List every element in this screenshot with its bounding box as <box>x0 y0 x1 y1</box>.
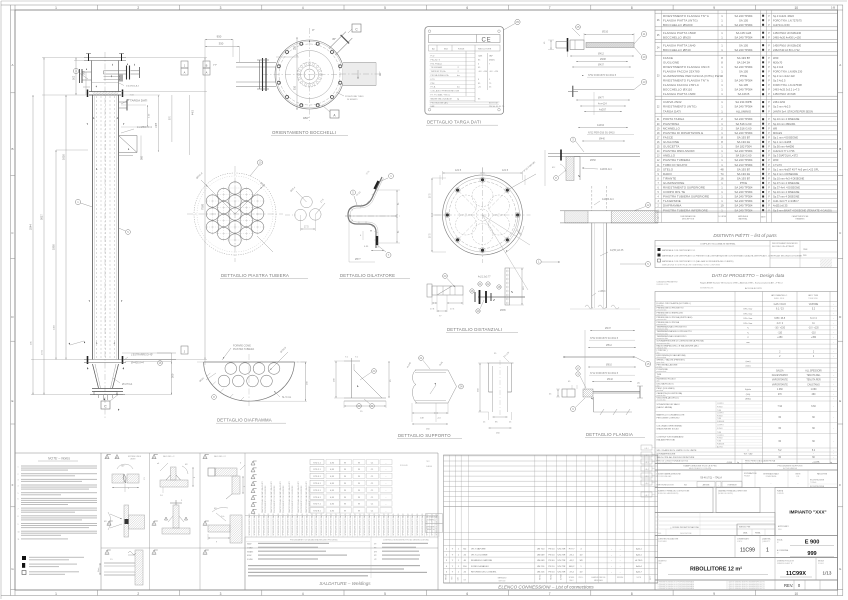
svg-text:SPESSORE GIUNTO SALD: SPESSORE GIUNTO SALD <box>310 513 313 536</box>
svg-text:+450: +450 <box>777 337 783 339</box>
svg-text:INGRESSO FLUIDO: INGRESSO FLUIDO <box>657 379 677 381</box>
svg-text:PN 10: PN 10 <box>548 554 555 556</box>
svg-text:OGGETTO: OGGETTO <box>658 561 668 563</box>
svg-text:PRESSIONE DI ESERCIZIO: PRESSIONE DI ESERCIZIO <box>657 312 684 314</box>
svg-text:4xØ10: 4xØ10 <box>597 124 605 127</box>
support dim 360 <box>140 136 142 161</box>
svg-text:TIRANTE: TIRANTE <box>663 176 676 180</box>
svg-text:1B0°: 1B0° <box>303 116 309 120</box>
svg-text:PIASTRINA: PIASTRINA <box>663 122 679 126</box>
svg-text:Kg/dm: Kg/dm <box>745 389 751 391</box>
svg-text:SA 193 B7: SA 193 B7 <box>737 136 751 140</box>
svg-text:SA 105: SA 105 <box>739 83 748 87</box>
svg-text:UN 216: UN 216 <box>537 572 545 574</box>
svg-text:TARGA DATI: TARGA DATI <box>130 99 148 103</box>
svg-text:BOTTOM: BOTTOM <box>489 102 498 104</box>
svg-text:SA 105: SA 105 <box>739 43 748 47</box>
svg-text:UN 72R: UN 72R <box>558 549 566 551</box>
section A flange left <box>570 40 584 50</box>
svg-text:NOTE: NOTE <box>637 577 641 579</box>
svg-text:CONTROLLI NON DISTRUTTIVI (N.: CONTROLLI NON DISTRUTTIVI (N. DESIGN CUS… <box>383 540 429 542</box>
svg-text:FAB: FAB <box>431 105 435 108</box>
svg-text:MT:: MT: <box>374 551 378 553</box>
svg-text:UN 669: UN 669 <box>537 554 545 556</box>
svg-text:950: 950 <box>217 35 222 39</box>
svg-text:6: 6 <box>466 592 468 596</box>
svg-text:4-B-1: 4-B-1 <box>644 448 648 450</box>
svg-text:1: 1 <box>55 592 57 596</box>
svg-text:N°12 FORI Ø76 SU Ø41.5: N°12 FORI Ø76 SU Ø41.5 <box>590 372 619 375</box>
svg-text:4x21.3x3.77 L=1383.7: 4x21.3x3.77 L=1383.7 <box>773 199 799 203</box>
svg-text:PN 10: PN 10 <box>548 549 555 551</box>
svg-text:4xØ36.4x4: 4xØ36.4x4 <box>600 168 612 171</box>
svg-text:PIANTA: PIANTA <box>777 490 784 493</box>
svg-text:kg: kg <box>457 98 459 100</box>
weld cell3 detail2 <box>203 521 207 525</box>
svg-text:COLONIA DI VEROSSIMILI: COLONIA DI VEROSSIMILI <box>657 425 683 428</box>
svg-text:UN 72R: UN 72R <box>558 566 566 568</box>
svg-text:ALTRA CAMERA: ALTRA CAMERA <box>783 467 798 470</box>
svg-text:5: 5 <box>253 491 254 493</box>
svg-text:ESW:: ESW: <box>247 555 252 557</box>
svg-text:IMPIANTO "XXX": IMPIANTO "XXX" <box>789 510 826 515</box>
svg-text:2544: 2544 <box>29 224 33 230</box>
svg-text:(NOME DELL'ENTE): (NOME DELL'ENTE) <box>718 493 733 495</box>
svg-text:Sp.3 4x222. Ø222: Sp.3 4x222. Ø222 <box>773 14 794 18</box>
right dim line 7585 <box>204 58 206 360</box>
svg-text:SPESSORE GIUNTO SALD: SPESSORE GIUNTO SALD <box>378 513 381 536</box>
svg-text:2462 PxR.L6.50 L=712: 2462 PxR.L6.50 L=712 <box>773 48 800 52</box>
commessa row <box>655 536 838 558</box>
svg-text:A-B-1: A-B-1 <box>636 548 642 551</box>
svg-text:5: 5 <box>384 592 386 596</box>
svg-text:PIASTRA TUBIERA INFERIORE: PIASTRA TUBIERA INFERIORE <box>663 208 708 212</box>
svg-text:FINANZIARIA: FINANZIARIA <box>766 475 777 478</box>
svg-text:Sp.10 mm 4 DISEGNE: Sp.10 mm 4 DISEGNE <box>773 190 800 194</box>
svg-text:6.1 / 23: 6.1 / 23 <box>776 309 784 311</box>
svg-text:GUARNIZIONE PER FASCIA (INTG): GUARNIZIONE PER FASCIA (INTG) FW-R <box>663 74 723 78</box>
svg-text:5: 5 <box>18 493 19 495</box>
vessel top left nozzle <box>82 71 92 73</box>
supporto right view <box>487 362 514 364</box>
svg-text:PORTA TARGA: PORTA TARGA <box>663 117 684 121</box>
svg-text:1: 1 <box>18 466 19 468</box>
svg-text:PROCEDIMENTO DI GIUNZIONE: PROCEDIMENTO DI GIUNZIONE <box>265 485 267 513</box>
left dim lines <box>42 57 84 59</box>
svg-text:TOT / LAT: TOT / LAT <box>743 453 753 456</box>
svg-text:NOTE – Notes: NOTE – Notes <box>48 457 70 461</box>
svg-text:CE: CE <box>482 37 492 43</box>
svg-text:NUMERO E FIRMA DEL COSTRUTTORE: NUMERO E FIRMA DEL COSTRUTTORE <box>658 490 691 493</box>
svg-text:LIMITE: LIMITE <box>130 459 136 461</box>
svg-text:MASSE VALLI/QUALIM: MASSE VALLI/QUALIM <box>431 97 452 100</box>
svg-text:A-B-4: A-B-4 <box>636 565 642 568</box>
svg-text:5: 5 <box>384 6 386 10</box>
svg-text:B: B <box>206 64 208 68</box>
svg-text:P77,7: P77,7 <box>569 549 576 551</box>
svg-text:PER LIMITE CORROSO: PER LIMITE CORROSO <box>657 417 680 419</box>
supporto middle refs <box>419 356 424 361</box>
svg-text:Ø385: Ø385 <box>500 310 506 312</box>
diaframma holes <box>225 363 237 375</box>
passo dims <box>296 191 307 202</box>
svg-text:Ø437: Ø437 <box>605 327 612 330</box>
commessa number box <box>734 536 736 558</box>
svg-text:SALDATURE – Weldings: SALDATURE – Weldings <box>319 581 371 586</box>
svg-text:DISEGNO FOGLIO N°: DISEGNO FOGLIO N° <box>777 561 794 563</box>
svg-text:UN 72R: UN 72R <box>558 560 566 562</box>
svg-text:PN 10: PN 10 <box>548 566 555 568</box>
svg-text:Sp.37 mm 4 DISEGNE: Sp.37 mm 4 DISEGNE <box>773 195 800 199</box>
dim 870 <box>171 95 173 142</box>
svg-text:mm: mm <box>746 342 750 344</box>
svg-text:SL.5 mm: SL.5 mm <box>282 397 291 399</box>
svg-text:1.6: 1.6 <box>160 495 163 497</box>
svg-text:bar: bar <box>457 87 460 89</box>
svg-text:PTFE: PTFE <box>740 74 747 78</box>
svg-text:FLD: FLD <box>431 56 435 58</box>
svg-text:STD 7.1: STD 7.1 <box>313 504 321 506</box>
orientamento left nozzle flange <box>262 58 264 91</box>
svg-text:2465 4x20.4x430 L=150: 2465 4x20.4x430 L=150 <box>773 35 801 39</box>
svg-text:SPESSORE GIUNTO SALD: SPESSORE GIUNTO SALD <box>296 513 299 536</box>
svg-text:W20: W20 <box>773 56 779 60</box>
svg-text:A-B-7: A-B-7 <box>636 571 642 574</box>
svg-text:GUSCETTA: GUSCETTA <box>663 145 679 149</box>
svg-text:2: 2 <box>137 6 139 10</box>
svg-text:+450: +450 <box>811 337 817 339</box>
svg-text:(MAX): (MAX) <box>489 58 495 61</box>
parts table single rows <box>655 116 838 118</box>
svg-text:C1: C1 <box>204 457 206 459</box>
section E break squiggles <box>585 305 593 309</box>
svg-text:LATO MANTELLO: LATO MANTELLO <box>771 294 788 297</box>
flangia section <box>562 389 575 397</box>
svg-text:1.5: 1.5 <box>110 559 113 561</box>
svg-text:A: A <box>11 63 13 67</box>
svg-text:1616: 1616 <box>62 154 66 160</box>
flangia bold arrow line <box>563 356 635 358</box>
svg-text:3: 3 <box>220 592 222 596</box>
svg-text:45°: 45° <box>214 508 217 510</box>
piastra diag leaders <box>201 180 235 214</box>
svg-text:448,2: 448,2 <box>569 566 575 568</box>
svg-text:SA 194 2H: SA 194 2H <box>737 140 750 144</box>
svg-text:ALL SPESSORI: ALL SPESSORI <box>805 369 822 372</box>
svg-text:4x21.3x3.77: 4x21.3x3.77 <box>478 277 491 279</box>
svg-text:FONDO A BASSO: FONDO A BASSO <box>471 565 489 568</box>
svg-text:1450 PN16 UN 628: 1450 PN16 UN 628 <box>773 92 796 96</box>
svg-text:CARPENTERIA 4 SALDATURA GIUNTI: CARPENTERIA 4 SALDATURA GIUNTI <box>279 481 282 513</box>
section D flange pair <box>548 153 640 155</box>
svg-text:D3: D3 <box>204 552 206 554</box>
svg-text:UN 72R: UN 72R <box>558 554 566 556</box>
svg-text:Sp.10 mm 280x301: Sp.10 mm 280x301 <box>773 122 796 126</box>
svg-text:6.85 / 46.5: 6.85 / 46.5 <box>774 318 786 320</box>
svg-text:PIASTRA TUBIERA SUPERIORE: PIASTRA TUBIERA SUPERIORE <box>663 195 709 199</box>
svg-text:DN 3xL FL SL TA: DN 3xL FL SL TA <box>489 105 505 108</box>
dilatatore centerline <box>345 215 400 217</box>
svg-text:ELENCO CONNESSIONI – List: ELENCO CONNESSIONI – List of connections <box>498 585 594 590</box>
svg-text:SPESSORE GIUNTO SALD: SPESSORE GIUNTO SALD <box>248 513 251 536</box>
svg-text:ROUGHN: ROUGHN <box>400 465 408 467</box>
svg-text:SPESS.: SPESS. <box>569 577 575 579</box>
svg-text:UN 72R: UN 72R <box>558 572 566 574</box>
svg-text:STD 2.1: STD 2.1 <box>313 469 321 471</box>
dilatatore bottom dim <box>348 216 350 262</box>
svg-text:F: F <box>839 483 841 487</box>
svg-text:BOCCHELLO ØN20: BOCCHELLO ØN20 <box>663 35 691 39</box>
svg-text:STELO: STELO <box>663 167 674 171</box>
section C dims <box>578 127 628 129</box>
svg-text:E 900: E 900 <box>805 540 820 546</box>
svg-text:Ø577: Ø577 <box>355 259 361 261</box>
svg-text:CARPENTERIA 4 SALDATURA GIUNTI: CARPENTERIA 4 SALDATURA GIUNTI <box>305 481 308 513</box>
svg-text:19: 19 <box>721 204 724 208</box>
svg-text:SPESSORE GIUNTO SALD: SPESSORE GIUNTO SALD <box>354 513 357 536</box>
svg-text:RIVESTIMENTO FLANGIA TN"'A: RIVESTIMENTO FLANGIA TN"'A <box>663 79 709 83</box>
tube bundle shell <box>92 95 94 360</box>
svg-text:CARPENTERIA 4 SALDATURA GIUNTI: CARPENTERIA 4 SALDATURA GIUNTI <box>288 481 291 513</box>
svg-text:FCAW:: FCAW: <box>247 558 253 561</box>
svg-text:GTAW:: GTAW: <box>247 546 253 549</box>
flangia lower stem <box>593 397 595 412</box>
svg-text:ITALIANI PER TUBI: ITALIANI PER TUBI <box>657 438 676 441</box>
svg-text:Ø442: Ø442 <box>607 378 614 381</box>
design data header <box>655 301 838 303</box>
svg-text:bar: bar <box>457 75 460 77</box>
svg-text:10: 10 <box>795 6 799 10</box>
svg-text:4xØ37: 4xØ37 <box>599 108 607 111</box>
svg-text:A1: A1 <box>106 456 108 459</box>
dilatatore vertical dim right <box>376 189 400 191</box>
svg-text:QUESTO DISEGNO NON PUO ESSERE: QUESTO DISEGNO NON PUO ESSERE RIPRODOTTO <box>729 584 766 586</box>
svg-text:1.060: 1.060 <box>777 389 783 391</box>
dim 350 vertical <box>147 105 149 127</box>
svg-text:SMAW:: SMAW: <box>247 550 254 553</box>
svg-text:1/13: 1/13 <box>823 571 832 576</box>
svg-text:RIVESTIMENTO FLANGIA CNCX: RIVESTIMENTO FLANGIA CNCX <box>663 65 710 69</box>
svg-text:SPESSORE GIUNTO SALD: SPESSORE GIUNTO SALD <box>320 513 323 536</box>
svg-text:SP.LI CLASSI SU N. LIMITE /: SP.LI CLASSI SU N. LIMITE / DI N. LIMITE <box>657 449 698 452</box>
svg-text:FLANGIA PIATTA 1N40: FLANGIA PIATTA 1N40 <box>663 43 696 47</box>
svg-text:GAS: GAS <box>478 55 483 58</box>
tubes dashed <box>96 96 98 359</box>
svg-text:PROCEDIMENTO DI GIUNZIONE: PROCEDIMENTO DI GIUNZIONE <box>309 485 311 513</box>
svg-text:FINALE: FINALE <box>744 475 751 478</box>
svg-text:48: 48 <box>721 167 724 171</box>
svg-text:7.94: 7.94 <box>778 406 783 408</box>
svg-text:C2: C2 <box>204 523 206 525</box>
svg-text:RIVESTIMENTO (INTG): RIVESTIMENTO (INTG) <box>663 105 697 109</box>
svg-text:FORO TN'A. LN 7275/75: FORO TN'A. LN 7275/75 <box>773 18 802 22</box>
svg-text:4m=124: 4m=124 <box>598 103 607 106</box>
paper edge <box>1 0 847 2</box>
svg-text:Sp.1 mm 4xd37 45°? 4x5 per L=: Sp.1 mm 4xd37 45°? 4x5 per L=22 GFL <box>773 167 820 171</box>
svg-text:PIASTRA DI RIPARTIZION.E: PIASTRA DI RIPARTIZION.E <box>663 131 703 135</box>
svg-text:KPa / bar: KPa / bar <box>744 308 753 311</box>
svg-text:DETTAGLIO DISTANZIALI: DETTAGLIO DISTANZIALI <box>447 327 502 332</box>
svg-text:FLANGIA FACCIA 25X780: FLANGIA FACCIA 25X780 <box>663 70 700 74</box>
materials bullets <box>658 248 661 251</box>
design data thin bottom rows <box>655 447 838 449</box>
svg-text:B: B <box>839 147 841 151</box>
svg-text:MATERIAL: MATERIAL <box>739 218 748 221</box>
svg-text:PRESSIONE DI PROGETTO: PRESSIONE DI PROGETTO <box>657 308 684 310</box>
svg-text:INTERNI: INTERNI <box>617 577 624 579</box>
svg-text:'09-46 (7/2) – ITALIA: '09-46 (7/2) – ITALIA <box>700 477 722 480</box>
svg-text:810: 810 <box>294 85 297 90</box>
mid dim 1485 <box>121 94 160 96</box>
dilatatore hatch ticks <box>376 185 379 187</box>
svg-text:MATERIALE CON CERTIFICATO 2.2: MATERIALE CON CERTIFICATO 2.2 (SAL-GAS S… <box>662 260 734 263</box>
detail boxes J/A left <box>181 61 188 68</box>
svg-text:AESSB: AESSB <box>703 484 710 487</box>
svg-text:11C99X: 11C99X <box>786 571 806 577</box>
zone ticks top/bottom <box>14 5 16 10</box>
emesso box <box>737 524 775 536</box>
svg-text:Ø358: Ø358 <box>590 160 596 162</box>
supporto gusset refs <box>372 369 377 374</box>
svg-text:W: W <box>344 476 346 478</box>
svg-text:-10 / +120: -10 / +120 <box>808 328 819 330</box>
svg-text:TEMPERATURA DI PROGETTO: TEMPERATURA DI PROGETTO <box>657 326 688 329</box>
svg-text:4: 4 <box>302 592 304 596</box>
svg-text:77°: 77° <box>213 63 217 67</box>
svg-text:VAPORITANTE: VAPORITANTE <box>772 379 788 382</box>
svg-text:SA 240 TP304: SA 240 TP304 <box>735 195 753 199</box>
distanziali ref 23 <box>443 274 448 279</box>
piastra tubes <box>229 208 241 220</box>
svg-text:PROCEDENTE SUPPORTI: PROCEDENTE SUPPORTI <box>778 465 803 467</box>
svg-text:COMMESSA N°: COMMESSA N° <box>737 538 749 541</box>
svg-text:PROCEDIMENTO DI GIUNZIONE: PROCEDIMENTO DI GIUNZIONE <box>283 485 285 513</box>
svg-text:W: W <box>358 476 360 478</box>
svg-text:2731: 2731 <box>42 349 44 355</box>
svg-text:SPESSORE GIUNTO SALD: SPESSORE GIUNTO SALD <box>325 513 328 536</box>
dim line x205 bottom tick <box>204 360 206 366</box>
svg-text:W: W <box>358 462 360 464</box>
svg-text:QUESTO DISEGNO NON PUO ESSERE: QUESTO DISEGNO NON PUO ESSERE RIPRODOTTO <box>729 586 766 588</box>
svg-text:QUESTO DISEGNO NON PUO ESSERE: QUESTO DISEGNO NON PUO ESSERE RIPRODOTTO <box>729 588 766 590</box>
supporto gusset view <box>344 360 360 362</box>
svg-text:305: 305 <box>83 70 86 75</box>
saldature legend header <box>244 537 246 590</box>
svg-text:SA 240 TP304: SA 240 TP304 <box>735 131 753 135</box>
svg-text:GUGLIONE: GUGLIONE <box>663 140 679 144</box>
svg-text:17.5: 17.5 <box>304 227 309 229</box>
svg-text:SERVICE: SERVICE <box>499 581 506 583</box>
svg-text:SPESSORE GIUNTO SALD: SPESSORE GIUNTO SALD <box>373 513 376 536</box>
svg-text:SA 193 B7: SA 193 B7 <box>737 176 751 180</box>
border band outer <box>1 4 843 6</box>
svg-text:45°: 45° <box>332 37 336 41</box>
svg-text:1485: 1485 <box>156 122 158 128</box>
svg-text:8: 8 <box>631 6 633 10</box>
svg-text:11: 11 <box>18 539 20 541</box>
svg-text:TENUTA PER: TENUTA PER <box>806 379 821 382</box>
oggetto row <box>655 558 838 581</box>
passo tubi circles <box>301 196 313 208</box>
vessel channel shell <box>91 61 93 92</box>
svg-text:COMPILATO SULL'ANALISI MATERIA: COMPILATO SULL'ANALISI MATERIAL <box>700 243 737 246</box>
svg-text:Sp.3 4x2.5: Sp.3 4x2.5 <box>773 79 786 83</box>
svg-text:POSIZIONE: POSIZIONE <box>657 369 669 371</box>
svg-text:PRESSIONE DI PROVA: PRESSIONE DI PROVA <box>657 321 680 324</box>
svg-text:SPESSORE GIUNTO SALD: SPESSORE GIUNTO SALD <box>416 513 419 536</box>
svg-text:SA 194 2H: SA 194 2H <box>737 172 750 176</box>
svg-text:4x2724 L=150: 4x2724 L=150 <box>773 23 790 27</box>
dilatatore end blobs <box>375 181 379 189</box>
svg-text:W: W <box>344 483 346 485</box>
saldature column triangles <box>251 461 255 465</box>
svg-text:PROCEDIMENTO DI GIUNZIONE: PROCEDIMENTO DI GIUNZIONE <box>292 485 294 513</box>
svg-text:ITEM: ITEM <box>803 249 808 251</box>
svg-text:RADIOGRAFIA (CIRC.) E SALDATU: RADIOGRAFIA (CIRC.) E SALDATURE (AS.) <box>657 344 699 347</box>
svg-text:SAW:: SAW: <box>247 543 252 546</box>
svg-text:SITUAZIONE DEI SALDI: SITUAZIONE DEI SALDI <box>657 403 681 406</box>
svg-text:B2: B2 <box>153 523 155 525</box>
svg-text:SPESSORE GIUNTO SALD: SPESSORE GIUNTO SALD <box>382 513 385 536</box>
vessel top flange <box>84 57 126 59</box>
svg-text:W: W <box>344 497 346 499</box>
svg-text:W: W <box>358 497 360 499</box>
svg-text:A: A <box>184 71 186 75</box>
approvazioni rows <box>655 513 775 536</box>
support bracket right <box>119 135 138 137</box>
svg-text:SA 105: SA 105 <box>739 70 748 74</box>
svg-text:W: W <box>344 469 346 471</box>
svg-text:STAMP DIREZIONE 97/23 CE E PED: STAMP DIREZIONE 97/23 CE E PED <box>683 464 717 467</box>
svg-text:W: W <box>358 504 360 506</box>
svg-text:FOGLIO: FOGLIO <box>818 563 825 565</box>
svg-text:CORPO RIS.TE: CORPO RIS.TE <box>663 190 685 194</box>
svg-text:PS(+S) / S: PS(+S) / S <box>431 59 441 61</box>
svg-text:7: 7 <box>549 592 551 596</box>
svg-text:Ø437: Ø437 <box>598 64 605 67</box>
svg-text:CUSTOMER: CUSTOMER <box>658 541 668 543</box>
ref circle 5 <box>126 230 131 235</box>
svg-text:Ømin: Ømin <box>98 568 100 572</box>
svg-text:DETT.: DETT. <box>650 575 652 580</box>
targa dati leader <box>121 100 129 104</box>
targa leader to ref <box>504 24 516 31</box>
bottom flange stack <box>92 388 123 390</box>
svg-text:SA 105 GLB: SA 105 GLB <box>736 31 752 35</box>
svg-text:W: W <box>344 504 346 506</box>
svg-text:SA 516 G.60: SA 516 G.60 <box>736 122 752 126</box>
svg-text:VAP: VAP <box>489 55 494 58</box>
connections upper rows <box>444 455 658 457</box>
svg-text:NOTE ELENCO: NOTE ELENCO <box>427 517 439 519</box>
svg-text:Sp.3 4x3: Sp.3 4x3 <box>773 65 784 69</box>
svg-text:45°: 45° <box>185 464 188 466</box>
svg-text:SA 240 TP304: SA 240 TP304 <box>735 88 753 92</box>
svg-text:45°: 45° <box>104 521 107 523</box>
connections mid lines <box>444 532 658 534</box>
svg-text:Ø477: Ø477 <box>598 97 605 100</box>
svg-text:SA 240 TP304: SA 240 TP304 <box>735 204 753 208</box>
svg-text:(mm): (mm) <box>746 366 751 368</box>
svg-text:N°52 FORI Ø76 SU Ø41.5: N°52 FORI Ø76 SU Ø41.5 <box>588 74 617 77</box>
svg-text:A: A <box>839 63 841 67</box>
svg-text:CONNESS.: CONNESS. <box>427 520 435 522</box>
svg-text:FLANGIA PIATTA 1N80: FLANGIA PIATTA 1N80 <box>663 92 696 96</box>
svg-text:PIASTRA RNFLSSORI: PIASTRA RNFLSSORI <box>663 149 695 153</box>
svg-text:SOVRASPESSORE: SOVRASPESSORE <box>657 453 676 456</box>
svg-text:SA 234 WPB: SA 234 WPB <box>735 100 751 104</box>
svg-text:( CIRCOLI ): ( CIRCOLI ) <box>657 350 668 352</box>
